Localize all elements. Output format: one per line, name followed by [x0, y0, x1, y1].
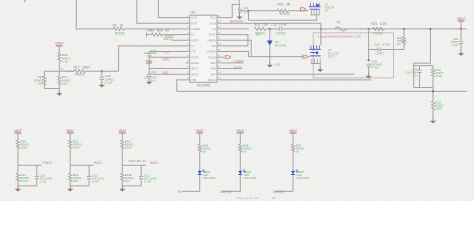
wire R10 to node: [17, 149, 19, 166]
resistor R12: [69, 140, 72, 148]
wire C17 left: [369, 49, 378, 51]
svg-text:PGND: PGND: [208, 55, 216, 59]
annotation box fuse area: [313, 33, 393, 78]
svg-text:2K: 2K: [203, 150, 207, 154]
resistor R22: [277, 9, 288, 12]
resistor R16: [43, 76, 46, 85]
svg-text:VFB: VFB: [191, 78, 196, 82]
wire pin23 BAT(ON): [221, 22, 321, 24]
svg-text:4.7uF: 4.7uF: [372, 65, 379, 69]
svg-text:REGN: REGN: [208, 78, 216, 82]
pin 9 AGND: [186, 62, 190, 64]
svg-text:BZ-2799: BZ-2799: [275, 43, 286, 47]
pin 10 ISET1: [186, 68, 190, 70]
svg-text:VBAT: VBAT: [14, 129, 22, 133]
svg-text:2K: 2K: [296, 150, 300, 154]
pin 18 LODRV: [217, 51, 221, 53]
resistor R10: [16, 140, 19, 148]
wire LED bottom left: [222, 190, 240, 192]
wire pin17 stub: [221, 56, 224, 58]
capacitor C20: [278, 27, 280, 31]
resistor R15: [431, 101, 434, 110]
pin 4 CE: [186, 34, 190, 36]
capacitor C15: [147, 53, 151, 55]
ground J1: [319, 66, 321, 69]
svg-text:2P: 2P: [325, 9, 329, 13]
svg-text:C14: C14: [151, 70, 157, 74]
svg-text:P1: P1: [178, 190, 182, 194]
svg-text:ADC1: ADC1: [164, 37, 173, 41]
wire cluster top: [414, 65, 433, 67]
power flag VBAT cell LED3: [196, 132, 203, 134]
wire R11 bottom: [17, 182, 19, 186]
node VBAT rail: [460, 28, 462, 30]
svg-text:BAT2: BAT2: [150, 161, 158, 165]
wire cluster to pin7: [149, 51, 185, 53]
svg-text:SW: SW: [211, 44, 216, 48]
wire node to cap branch: [18, 164, 42, 166]
svg-text:100K: 100K: [21, 146, 28, 150]
wire pin22 to R23: [221, 28, 249, 30]
svg-text:10uF: 10uF: [452, 43, 458, 47]
ground cell R10: [17, 186, 19, 189]
resistor R19: [431, 69, 434, 78]
wire join to ground: [58, 89, 60, 91]
wire R2 to pin3: [124, 28, 186, 30]
wire C21 to ground: [239, 12, 241, 14]
wire cluster bottom: [414, 87, 433, 89]
connector J2 pins: [311, 10, 313, 15]
svg-text:BAT(G): BAT(G): [273, 190, 284, 194]
wire R13 bottom: [69, 182, 71, 186]
wire R15b bottom: [121, 182, 123, 186]
pin 15 SRN: [217, 68, 221, 70]
connector J1 pins down: [311, 59, 313, 64]
wire drop to lower run: [248, 11, 250, 20]
svg-text:BAT(ON): BAT(ON): [230, 20, 243, 24]
node C18b: [368, 59, 370, 61]
wire cluster to pin10: [149, 68, 185, 70]
wire node to cap branch: [70, 164, 94, 166]
capacitor C14: [147, 73, 151, 75]
svg-text:U9: U9: [191, 11, 196, 15]
wire LED4 down: [239, 175, 241, 192]
wire LED bottom left: [182, 190, 200, 192]
wire R26 to LED4: [239, 152, 241, 171]
ground C18b: [368, 73, 370, 76]
svg-text:VBAT: VBAT: [118, 129, 126, 133]
wire C18b to ground: [368, 66, 370, 72]
wire VBAT to rail: [460, 21, 462, 29]
pin 24 VCC: [217, 17, 221, 19]
power flag VREF: [56, 45, 62, 47]
wire pin21 down: [221, 35, 248, 46]
svg-text:C0402: C0402: [276, 32, 286, 36]
wire R19 bottom: [432, 78, 434, 88]
port arrow pin17: [225, 56, 230, 59]
pin 23 ACIN: [217, 22, 221, 24]
pin 22 VS: [217, 28, 221, 30]
fuse F1: [335, 27, 346, 31]
svg-text:2.4K: 2.4K: [62, 60, 68, 64]
wire cell bottom join: [18, 185, 37, 187]
wire pin19: [221, 45, 248, 47]
ground C19: [460, 50, 462, 53]
resistor R20: [402, 37, 405, 45]
wire pin24 up: [221, 4, 239, 17]
node VREF flag bar: [146, 33, 148, 37]
svg-text:0.1uF: 0.1uF: [92, 180, 100, 184]
wire pin12 to rail: [177, 80, 186, 92]
capacitor C18a: [100, 76, 104, 78]
wire C14 to ground: [148, 77, 150, 79]
svg-text:VREF: VREF: [55, 42, 64, 46]
wire rail down to cluster: [414, 29, 431, 66]
wire VREF flag to R24: [147, 34, 152, 36]
wire R17 to riser: [86, 70, 119, 72]
svg-text:SC24H5: SC24H5: [197, 84, 211, 88]
wire C21 to R22: [241, 10, 246, 12]
svg-text:36K: 36K: [73, 179, 78, 183]
wire cell bottom join: [122, 185, 141, 187]
svg-text:100K: 100K: [125, 146, 132, 150]
svg-text:HIDRV: HIDRV: [207, 38, 216, 42]
svg-text:1 W 2 2K+ W: 1 W 2 2K+ W: [128, 159, 145, 163]
wire to C14: [148, 69, 150, 75]
wire VREF down: [58, 46, 60, 53]
ground C18a: [101, 82, 103, 85]
op-amp U9 charger IC body: [190, 15, 217, 82]
resistor R19b: [58, 76, 61, 85]
wire stub top edge: [24, 0, 26, 2]
svg-text:VREF: VREF: [145, 59, 153, 63]
wire main rail to VBAT: [282, 28, 467, 30]
svg-text:BAT1: BAT1: [94, 161, 102, 165]
wire C10 bottom: [36, 179, 38, 186]
node rail crossing: [432, 90, 434, 92]
svg-text:R23 10R C20 0.1uF: R23 10R C20 0.1uF: [254, 22, 287, 26]
svg-text:100K: 100K: [73, 146, 80, 150]
svg-text:F1: F1: [337, 20, 341, 24]
wire bottom rail: [177, 90, 467, 92]
wire LED5 down: [292, 175, 294, 192]
wire J2 pin bar: [310, 14, 320, 16]
pin 5 STAT1: [186, 39, 190, 41]
svg-text:SRN: SRN: [210, 67, 216, 71]
pin 14 BAT: [217, 73, 221, 75]
pin 8 STAT2: [186, 56, 190, 58]
svg-text:STAT2: STAT2: [191, 55, 199, 59]
wire VBAT to R25: [199, 133, 201, 144]
LED LED3: [198, 171, 202, 174]
resistor R13: [69, 173, 72, 181]
wire right branch down: [58, 71, 60, 76]
svg-text:SRP: SRP: [210, 61, 216, 65]
ground R15: [432, 118, 434, 121]
ground divider: [58, 90, 60, 93]
wire VREF flag down: [148, 63, 150, 69]
svg-text:56.9K: 56.9K: [21, 179, 29, 183]
pin 1 ACN: [186, 17, 190, 19]
wire cluster to R15 chain: [432, 88, 434, 102]
node R17/C18a junction: [101, 70, 103, 72]
resistor R2: [113, 27, 124, 30]
svg-text:LED-0603: LED-0603: [203, 176, 216, 180]
ground C14: [148, 79, 150, 82]
svg-text:R0603: R0603: [280, 12, 290, 16]
svg-text:ISET1: ISET1: [191, 67, 199, 71]
wire divider bottom join: [44, 88, 59, 90]
wire VBAT to R12: [69, 133, 71, 140]
wire VBAT to R10: [17, 133, 19, 140]
svg-text:AGND: AGND: [191, 61, 199, 65]
capacitor C16: [417, 69, 421, 71]
wire R22 to connector J2: [288, 10, 308, 12]
connector J2: [309, 3, 311, 6]
svg-text:Sheet_1 of xxxx: Sheet_1 of xxxx: [237, 196, 259, 200]
wire lower run to J2: [249, 19, 317, 21]
wire +VBAT to pin16: [221, 62, 243, 64]
wire C11 bottom: [88, 179, 90, 186]
pin 12 VFB: [186, 79, 190, 81]
power flag VBAT cell LED5: [290, 132, 297, 134]
svg-text:ISET2: ISET2: [191, 72, 199, 76]
svg-text:BAT(R): BAT(R): [221, 190, 232, 194]
wire cap branch down: [140, 165, 142, 176]
ground C21: [239, 14, 241, 17]
svg-text:R17 100R: R17 100R: [74, 66, 91, 70]
resistor R27: [291, 144, 294, 151]
wire R14 to node: [121, 149, 123, 166]
wire to C18a: [101, 71, 103, 77]
port arrow at jack: [303, 55, 308, 58]
wire cap branch down: [88, 165, 90, 176]
resistor R24: [152, 33, 163, 36]
svg-text:TTC: TTC: [191, 50, 196, 54]
pin 20 HIDRV: [217, 39, 221, 41]
wire pin18 down: [221, 52, 248, 57]
resistor R18: [58, 53, 61, 62]
node rail-R20 left: [368, 28, 370, 30]
wire cluster to pin11: [149, 73, 185, 75]
ground cell R12: [69, 186, 71, 189]
resistor R15b: [121, 173, 124, 181]
pin 6 TS: [186, 45, 190, 47]
wire BAT(ON) down to jack: [320, 23, 322, 45]
power flag VBAT cell R10: [15, 132, 22, 134]
svg-text:TS: TS: [191, 44, 195, 48]
pin 19 SW: [217, 45, 221, 47]
wire C16 bottom: [419, 72, 421, 87]
wire node down: [17, 165, 19, 173]
svg-text:VBAT: VBAT: [457, 17, 465, 21]
wire riser to pin1: [158, 0, 185, 18]
ground cell R14: [121, 186, 123, 189]
wire node to cap branch: [122, 164, 146, 166]
svg-text:BAT: BAT: [211, 72, 216, 76]
svg-text:TL: TL: [61, 67, 65, 71]
wire rail to R20: [403, 29, 405, 37]
ground zener: [269, 62, 271, 65]
pin 7 TTC: [186, 51, 190, 53]
pin 16 SRP: [217, 62, 221, 64]
port arrow at J2: [300, 8, 305, 11]
LED LED4: [238, 171, 242, 174]
svg-text:VBAT: VBAT: [289, 129, 297, 133]
wire to C18b: [368, 50, 370, 61]
wire cluster left vertical: [413, 66, 415, 88]
resistor R25: [198, 144, 201, 151]
svg-text:1/1: 1/1: [272, 196, 277, 200]
svg-text:LED-0603: LED-0603: [244, 176, 257, 180]
svg-text:ACDRV: ACDRV: [191, 27, 201, 31]
wire J2 down: [316, 15, 318, 20]
resistor R14: [121, 140, 124, 148]
wire cell bottom join: [70, 185, 89, 187]
wire C19 to ground: [460, 44, 462, 51]
svg-text:VS: VS: [212, 27, 216, 31]
svg-text:DC5: DC5: [328, 55, 334, 59]
svg-text:0.1uF: 0.1uF: [144, 180, 152, 184]
svg-text:BTST: BTST: [209, 33, 216, 37]
power flag VBAT cell R14: [119, 132, 126, 134]
wire cluster vertical top: [148, 52, 150, 54]
power flag VBAT right: [458, 20, 464, 22]
svg-text:TXD: TXD: [163, 50, 170, 54]
svg-text:R22 0R: R22 0R: [278, 3, 291, 7]
wire R25 to LED3: [199, 152, 201, 171]
node wire A split: [247, 10, 249, 12]
LED LED5: [291, 171, 295, 174]
wire R12 to node: [69, 149, 71, 166]
svg-text:LODRV: LODRV: [207, 50, 216, 54]
wire riser to pin6: [119, 46, 186, 71]
svg-text:470R: 470R: [436, 74, 442, 78]
node rail cluster: [429, 28, 431, 30]
wire divider node horizontal: [44, 70, 74, 72]
pin 17 PGND: [217, 56, 221, 58]
svg-text:0R: 0R: [256, 32, 260, 36]
capacitor C18b: [366, 63, 370, 65]
svg-text:R0603: R0603: [75, 73, 85, 77]
svg-text:STAT1: STAT1: [191, 38, 199, 42]
svg-text:C17 4.7uF: C17 4.7uF: [375, 43, 391, 47]
svg-text:VREF R24 0R: VREF R24 0R: [147, 28, 171, 32]
wire R15 to ground: [432, 110, 434, 118]
wire R23 to C20: [266, 28, 279, 30]
wire C21 top riser: [238, 0, 240, 11]
svg-text:0.1uF: 0.1uF: [40, 180, 48, 184]
wire R19b bottom: [58, 85, 60, 89]
svg-text:4K7: 4K7: [125, 179, 131, 183]
wire R19 top: [432, 66, 434, 69]
node zener junction: [269, 28, 271, 30]
wire R20 to C17 wire: [403, 45, 405, 50]
svg-text:R0603: R0603: [115, 31, 125, 35]
wire node down: [121, 165, 123, 173]
capacitor C21: [238, 9, 240, 13]
wire R27 to LED5: [292, 152, 294, 171]
pin 2 ACP: [186, 22, 190, 24]
svg-text:0.1uF: 0.1uF: [105, 81, 113, 85]
resistor R11: [16, 173, 19, 181]
wire VBAT to R27: [292, 133, 294, 144]
svg-text:RXD: RXD: [163, 58, 171, 62]
svg-text:VBAT: VBAT: [196, 129, 204, 133]
wire to jack J1: [249, 56, 305, 58]
wire pin13 long: [221, 79, 371, 81]
wire C16 top: [419, 66, 421, 71]
wire C13 bottom: [140, 179, 142, 186]
svg-text:ACN: ACN: [191, 16, 197, 20]
svg-text:ACP: ACP: [191, 21, 197, 25]
svg-text:ACIN: ACIN: [209, 21, 215, 25]
capacitor C17: [377, 47, 379, 51]
wire riser to pin3: [76, 0, 113, 29]
wire pin14 long: [221, 73, 354, 75]
wire R18 to node: [58, 62, 60, 72]
svg-text:C0402: C0402: [375, 52, 384, 56]
wire rail to C19: [460, 29, 462, 40]
svg-text:VCC: VCC: [210, 16, 216, 20]
wire cap branch down: [36, 165, 38, 176]
wire node down: [69, 165, 71, 173]
power flag VBAT cell LED4: [237, 132, 244, 134]
wire J1 pin bar: [311, 63, 321, 65]
svg-text:VBAT: VBAT: [236, 129, 244, 133]
svg-text:R2 1K: R2 1K: [113, 23, 125, 27]
pin 11 ISET2: [186, 73, 190, 75]
power flag VBAT cell R12: [67, 132, 74, 134]
node rail crossing jack riser: [320, 28, 322, 30]
svg-text:TC100: TC100: [373, 31, 383, 35]
wire R24 to pin4: [163, 34, 186, 36]
svg-text:C21: C21: [243, 6, 249, 10]
resistor R17: [75, 70, 86, 73]
wire pin20 down: [221, 40, 251, 56]
wire cluster to pin8: [149, 56, 185, 58]
wire R16 bottom: [43, 85, 45, 89]
wire C15 to VREF flag: [148, 56, 150, 63]
resistor R21: [373, 27, 384, 30]
wire J1 to ground: [319, 64, 321, 67]
resistor R26: [239, 144, 242, 151]
wire C18a to ground: [101, 79, 103, 81]
svg-text:+VBAT: +VBAT: [42, 161, 52, 165]
pin 21 BTST: [217, 34, 221, 36]
wire VBAT to R14: [121, 133, 123, 140]
pin 3 ACDRV: [186, 28, 190, 30]
svg-text:BAT: BAT: [163, 71, 169, 75]
svg-text:100R: 100R: [436, 107, 442, 111]
svg-text:6.8K: 6.8K: [62, 82, 68, 86]
wire riser to pin2: [137, 0, 186, 23]
svg-text:CE: CE: [191, 33, 195, 37]
svg-text:2K: 2K: [243, 150, 247, 154]
svg-text:10K: 10K: [38, 82, 43, 86]
wire zener to ground: [269, 45, 271, 61]
svg-text:LED-0603: LED-0603: [296, 176, 309, 180]
wire BAT2 to pin15: [221, 68, 242, 70]
diode D2 zener: [267, 40, 272, 42]
node rail-R20 right: [403, 28, 405, 30]
capacitor C11: [87, 176, 91, 178]
wire ADC1 to pin5: [172, 39, 186, 41]
wire left branch down: [43, 71, 45, 76]
resistor R23: [255, 27, 266, 30]
capacitor C19: [459, 40, 463, 42]
svg-text:R21 0.1R: R21 0.1R: [372, 22, 388, 26]
